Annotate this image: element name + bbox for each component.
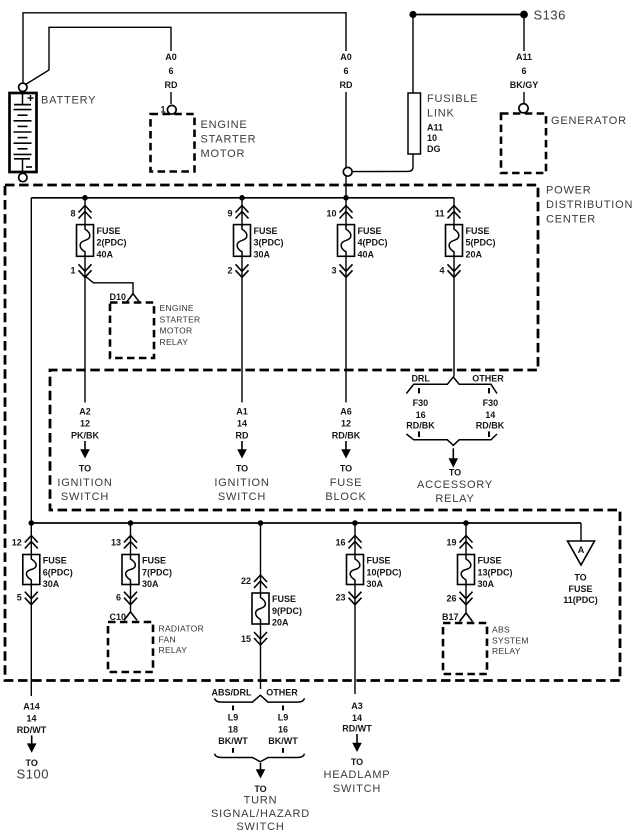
svg-text:26: 26 xyxy=(446,594,456,604)
svg-text:S136: S136 xyxy=(534,8,566,23)
svg-text:SWITCH: SWITCH xyxy=(236,821,284,833)
svg-text:A0: A0 xyxy=(340,52,352,62)
svg-text:14: 14 xyxy=(485,410,495,420)
svg-text:FUSE: FUSE xyxy=(272,594,296,604)
svg-text:FUSE: FUSE xyxy=(466,226,490,236)
svg-text:FAN: FAN xyxy=(159,634,176,644)
svg-text:30A: 30A xyxy=(254,249,271,259)
svg-text:RD/BK: RD/BK xyxy=(406,421,435,431)
svg-text:DG: DG xyxy=(427,144,441,154)
svg-text:RD/BK: RD/BK xyxy=(332,431,361,441)
svg-text:15: 15 xyxy=(241,634,251,644)
svg-text:ACCESSORY: ACCESSORY xyxy=(417,479,493,491)
svg-text:11(PDC): 11(PDC) xyxy=(563,595,598,605)
svg-text:DRL: DRL xyxy=(411,374,430,384)
svg-text:BK/WT: BK/WT xyxy=(218,736,248,746)
svg-text:RELAY: RELAY xyxy=(159,645,188,655)
svg-text:GENERATOR: GENERATOR xyxy=(551,115,627,127)
svg-text:BK/WT: BK/WT xyxy=(268,736,298,746)
svg-text:22: 22 xyxy=(241,576,251,586)
svg-text:FUSE: FUSE xyxy=(43,556,67,566)
svg-text:D10: D10 xyxy=(109,292,126,302)
svg-text:1: 1 xyxy=(160,105,165,115)
svg-text:IGNITION: IGNITION xyxy=(57,477,112,489)
svg-text:TO: TO xyxy=(254,784,266,794)
svg-text:FUSE: FUSE xyxy=(254,226,278,236)
svg-text:FUSE: FUSE xyxy=(97,226,121,236)
svg-text:12: 12 xyxy=(80,419,90,429)
svg-text:STARTER: STARTER xyxy=(201,134,257,146)
svg-text:RD/BK: RD/BK xyxy=(476,421,505,431)
svg-text:TO: TO xyxy=(79,463,91,473)
svg-text:1: 1 xyxy=(70,266,75,276)
svg-text:FUSE: FUSE xyxy=(568,584,592,594)
svg-text:BATTERY: BATTERY xyxy=(41,95,96,107)
svg-text:RELAY: RELAY xyxy=(160,337,189,347)
svg-text:13(PDC): 13(PDC) xyxy=(478,567,513,577)
svg-text:4: 4 xyxy=(439,266,444,276)
svg-text:FUSE: FUSE xyxy=(367,556,391,566)
svg-text:16: 16 xyxy=(335,538,345,548)
svg-text:6: 6 xyxy=(116,593,121,603)
svg-text:A2: A2 xyxy=(79,407,91,417)
svg-text:STARTER: STARTER xyxy=(160,314,201,324)
svg-text:10(PDC): 10(PDC) xyxy=(367,567,402,577)
svg-text:BK/GY: BK/GY xyxy=(510,80,539,90)
svg-text:B17: B17 xyxy=(442,612,459,622)
svg-text:L9: L9 xyxy=(278,713,289,723)
svg-text:2: 2 xyxy=(227,266,232,276)
svg-text:10: 10 xyxy=(427,133,437,143)
svg-text:ENGINE: ENGINE xyxy=(160,303,194,313)
svg-text:POWER: POWER xyxy=(546,185,592,197)
svg-text:SYSTEM: SYSTEM xyxy=(492,635,529,645)
svg-text:F30: F30 xyxy=(483,398,499,408)
svg-text:HEADLAMP: HEADLAMP xyxy=(324,769,391,781)
svg-text:7(PDC): 7(PDC) xyxy=(142,567,172,577)
svg-text:BLOCK: BLOCK xyxy=(325,491,366,503)
svg-text:FUSE: FUSE xyxy=(142,556,166,566)
svg-text:3(PDC): 3(PDC) xyxy=(254,238,284,248)
svg-text:ABS/DRL: ABS/DRL xyxy=(212,688,253,698)
svg-text:OTHER: OTHER xyxy=(472,374,504,384)
svg-text:30A: 30A xyxy=(367,579,384,589)
svg-text:14: 14 xyxy=(237,419,247,429)
svg-text:A0: A0 xyxy=(165,52,177,62)
svg-text:RD/WT: RD/WT xyxy=(342,724,372,734)
svg-text:6: 6 xyxy=(343,66,348,76)
svg-text:SWITCH: SWITCH xyxy=(61,491,109,503)
svg-text:MOTOR: MOTOR xyxy=(160,326,193,336)
svg-text:DISTRIBUTION: DISTRIBUTION xyxy=(546,199,633,211)
svg-text:PK/BK: PK/BK xyxy=(71,431,100,441)
svg-text:2(PDC): 2(PDC) xyxy=(97,238,127,248)
svg-text:A14: A14 xyxy=(23,702,40,712)
svg-text:MOTOR: MOTOR xyxy=(201,148,246,160)
svg-text:23: 23 xyxy=(335,593,345,603)
svg-text:C10: C10 xyxy=(109,612,126,622)
svg-text:FUSE: FUSE xyxy=(358,226,382,236)
svg-text:6: 6 xyxy=(168,66,173,76)
svg-text:RD: RD xyxy=(236,431,249,441)
svg-text:8: 8 xyxy=(70,209,75,219)
svg-text:RADIATOR: RADIATOR xyxy=(159,624,205,634)
svg-text:OTHER: OTHER xyxy=(266,688,298,698)
svg-text:30A: 30A xyxy=(142,579,159,589)
svg-text:FUSE: FUSE xyxy=(330,477,363,489)
svg-text:SWITCH: SWITCH xyxy=(333,783,381,795)
svg-text:A: A xyxy=(578,545,585,555)
svg-text:TO: TO xyxy=(236,463,248,473)
svg-text:ENGINE: ENGINE xyxy=(201,119,248,131)
svg-text:FUSIBLE: FUSIBLE xyxy=(427,93,478,105)
svg-text:6: 6 xyxy=(521,66,526,76)
svg-text:RELAY: RELAY xyxy=(492,646,521,656)
svg-text:F30: F30 xyxy=(413,398,429,408)
svg-text:12: 12 xyxy=(341,419,351,429)
svg-text:RD: RD xyxy=(165,80,178,90)
svg-text:40A: 40A xyxy=(358,249,375,259)
svg-text:L9: L9 xyxy=(228,713,239,723)
svg-text:11: 11 xyxy=(435,209,445,219)
svg-text:9: 9 xyxy=(227,209,232,219)
svg-text:20A: 20A xyxy=(272,618,289,628)
svg-text:S100: S100 xyxy=(17,766,49,781)
svg-text:LINK: LINK xyxy=(427,107,455,119)
svg-text:19: 19 xyxy=(446,538,456,548)
svg-text:16: 16 xyxy=(278,725,288,735)
svg-text:A11: A11 xyxy=(516,52,532,62)
svg-text:3: 3 xyxy=(331,266,336,276)
svg-text:A6: A6 xyxy=(340,407,352,417)
svg-text:12: 12 xyxy=(12,538,22,548)
svg-text:14: 14 xyxy=(352,713,362,723)
svg-text:10: 10 xyxy=(326,209,336,219)
svg-text:A3: A3 xyxy=(351,701,363,711)
svg-text:4(PDC): 4(PDC) xyxy=(358,238,388,248)
svg-text:30A: 30A xyxy=(43,579,60,589)
svg-text:FUSE: FUSE xyxy=(478,556,502,566)
svg-text:A1: A1 xyxy=(236,407,248,417)
svg-text:30A: 30A xyxy=(478,579,495,589)
svg-text:RELAY: RELAY xyxy=(435,493,474,505)
svg-text:20A: 20A xyxy=(466,249,483,259)
svg-text:13: 13 xyxy=(111,538,121,548)
svg-text:SIGNAL/HAZARD: SIGNAL/HAZARD xyxy=(211,808,310,820)
svg-text:5: 5 xyxy=(17,593,22,603)
svg-text:5(PDC): 5(PDC) xyxy=(466,238,496,248)
svg-text:A11: A11 xyxy=(427,123,443,133)
svg-text:RD: RD xyxy=(340,80,353,90)
svg-text:14: 14 xyxy=(26,714,36,724)
svg-text:TO: TO xyxy=(340,463,352,473)
svg-text:CENTER: CENTER xyxy=(546,214,596,226)
svg-text:40A: 40A xyxy=(97,249,114,259)
svg-text:SWITCH: SWITCH xyxy=(218,491,266,503)
svg-text:ABS: ABS xyxy=(492,625,510,635)
svg-text:TO: TO xyxy=(449,468,461,478)
svg-text:TURN: TURN xyxy=(244,795,278,807)
svg-text:TO: TO xyxy=(351,757,363,767)
svg-text:TO: TO xyxy=(574,573,586,583)
svg-text:6(PDC): 6(PDC) xyxy=(43,567,73,577)
svg-text:RD/WT: RD/WT xyxy=(17,725,47,735)
svg-text:16: 16 xyxy=(416,410,426,420)
svg-text:IGNITION: IGNITION xyxy=(214,477,269,489)
svg-text:9(PDC): 9(PDC) xyxy=(272,606,302,616)
svg-text:18: 18 xyxy=(228,725,238,735)
